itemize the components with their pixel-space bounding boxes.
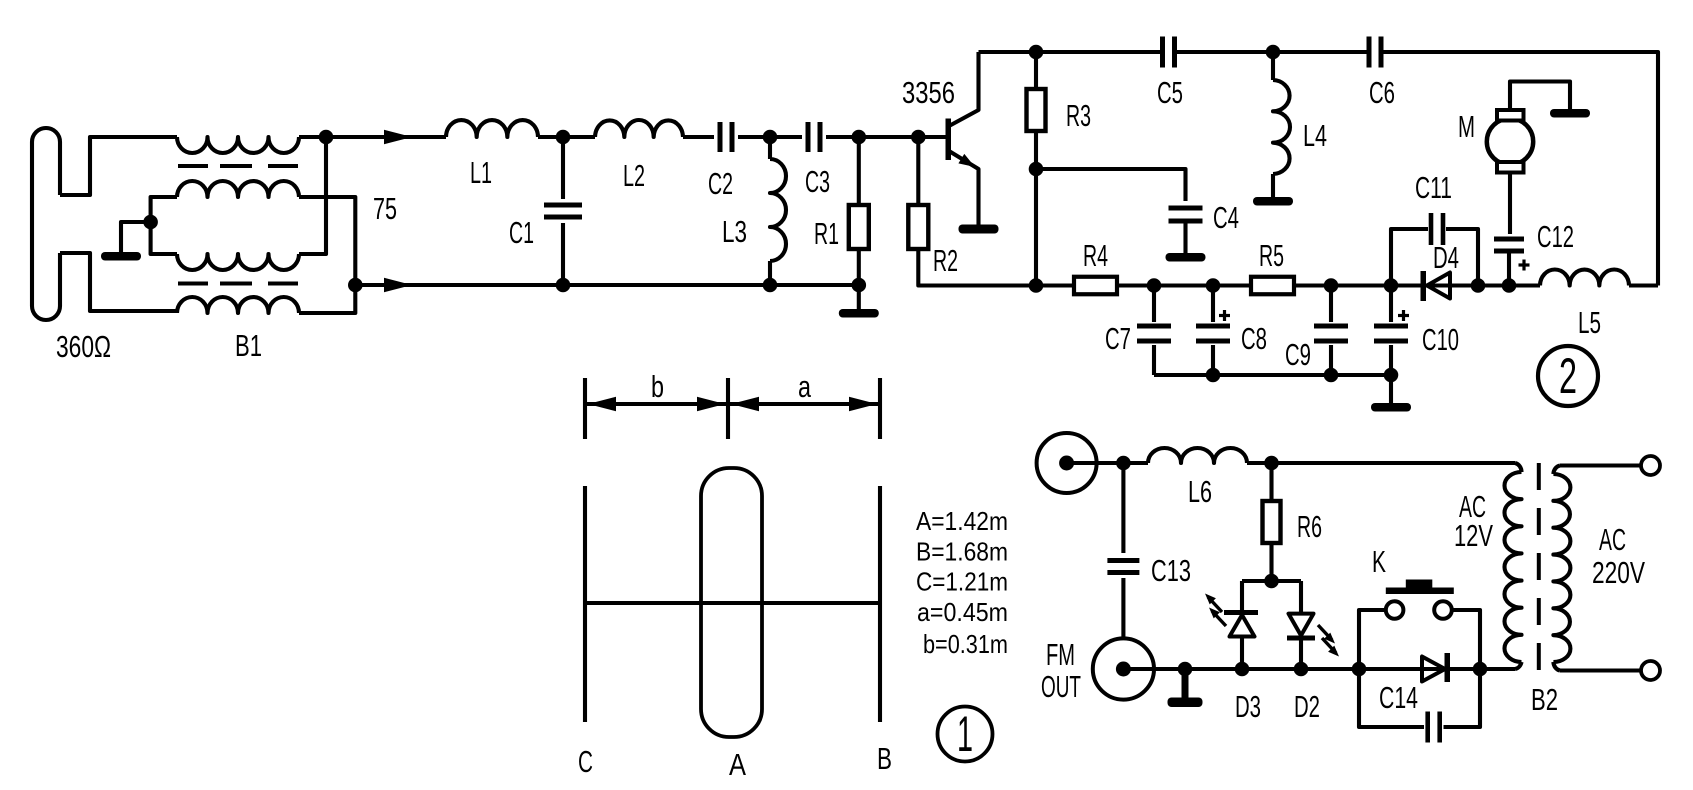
node C10 top [1384,278,1399,293]
capacitor C13 [1121,463,1125,553]
capacitor C11 [1429,213,1434,245]
wire motor to ground [1510,82,1570,112]
svg-text:OUT: OUT [1041,669,1081,704]
core dashes B1 lower [178,282,208,286]
dimension arrows a [731,397,759,411]
capacitor C9 [1329,286,1333,323]
antenna folded dipole A [701,468,762,737]
node L3 bottom [763,278,778,293]
wire R1 ground stub [857,285,861,311]
arrow signal in bottom [384,278,412,292]
terminal AC top [1641,456,1660,475]
node K right [1473,662,1488,677]
transistor Q1 base bar [946,119,952,161]
node base R2 [911,130,926,145]
node output ground [1178,662,1193,677]
wire top feed with arrow [326,135,446,139]
wire motor bottom to C12 [1508,173,1512,235]
inductor L1 [446,120,538,137]
svg-text:C4: C4 [1213,200,1239,235]
wire R3 node to C4 [1036,169,1186,201]
svg-text:AC: AC [1599,522,1626,557]
wire top rail left [979,50,1162,54]
svg-text:12V: 12V [1454,518,1493,553]
svg-text:C14: C14 [1379,680,1418,715]
capacitor C11 bracket [1391,229,1428,286]
ground filter [1371,403,1411,412]
svg-text:A: A [729,747,746,782]
capacitor C3 [806,122,811,152]
wire R3 node down to bus [1034,169,1038,286]
svg-text:D2: D2 [1294,689,1320,724]
resistor R3 [1034,52,1038,89]
ground B1 center tap [101,252,141,261]
resistor R2 [916,137,920,205]
svg-text:B: B [877,741,892,776]
antenna element C [583,486,587,722]
transformer B1 upper middle winding [177,181,299,197]
switch K contact left [1386,601,1404,619]
antenna boom [583,601,878,605]
svg-text:C6: C6 [1369,75,1395,110]
capacitor C1 [561,137,565,199]
figure number 1 circle [938,707,993,762]
wire base node to transistor [918,135,946,139]
wire supply bus [1185,667,1515,671]
wire D2 top [1299,581,1303,614]
inductor L5 [1540,269,1629,285]
capacitor C14 loop [1359,669,1424,727]
wire power bus [1036,283,1540,287]
capacitor C14 [1425,712,1430,743]
label C8 plus [1219,314,1230,317]
LED D3 emission arrows [1212,611,1226,626]
svg-text:C=1.21m: C=1.21m [916,567,1008,597]
transformer B1 top winding [177,137,299,153]
motor M body [1487,118,1533,164]
connector FM OUT [1093,638,1154,699]
svg-text:2: 2 [1559,348,1577,404]
node D2 bottom [1294,662,1309,677]
svg-text:L1: L1 [470,155,492,190]
diode D4 bar [1421,271,1427,301]
svg-text:C1: C1 [509,215,534,250]
wire bottom feed rail [355,283,859,287]
node C13 top [1116,456,1131,471]
wire C4 to ground [1183,221,1187,254]
node B1 center tap [143,215,158,230]
wire B1 middle left side [151,197,177,254]
node C1 bottom [556,278,571,293]
node C7 top [1147,278,1162,293]
dimension line a [728,402,880,406]
node C10 bottom [1384,368,1399,383]
capacitor C10 [1389,286,1393,323]
terminal AC bottom [1641,661,1660,680]
svg-text:3356: 3356 [902,75,955,110]
svg-text:B=1.68m: B=1.68m [916,537,1008,567]
node C9 bottom [1324,368,1339,383]
switch K bracket left [1359,610,1386,669]
node D3 bottom [1235,662,1250,677]
diode D1 bar [1445,653,1451,682]
wire R1 node to base node [859,135,919,139]
diode D4 triangle [1427,273,1450,299]
LED D2 triangle [1289,614,1314,636]
node C12 bottom [1502,278,1517,293]
svg-text:a=0.45m: a=0.45m [917,597,1008,627]
node R1 bottom [852,278,867,293]
transformer B2 primary winding [1515,463,1522,472]
svg-text:b: b [651,369,664,404]
svg-text:L3: L3 [722,214,747,249]
wire L2 to C2 [683,135,714,139]
transformer B2 core dashes [1537,463,1541,672]
svg-text:C3: C3 [805,164,830,199]
svg-text:R2: R2 [933,243,958,278]
node LED top [1264,574,1279,589]
node R6 top [1264,456,1279,471]
wire ground stub filter [1389,375,1393,404]
ground output [1168,698,1203,708]
svg-text:C5: C5 [1157,75,1183,110]
wire C2 to node [738,135,770,139]
switch K button [1406,580,1433,589]
wire LED bracket [1242,579,1301,583]
wire secondary bottom [1560,668,1641,672]
dimension line b [585,402,728,406]
wire L6 to B2 [1247,461,1515,465]
svg-text:C: C [578,744,593,779]
wire FM OUT to bus [1123,667,1185,671]
ground first stage [839,309,879,318]
LED D2 emission arrows [1318,625,1332,640]
wire connector to L6 [1067,461,1148,465]
svg-text:C2: C2 [708,166,733,201]
inductor L6 [1148,448,1247,463]
svg-text:M: M [1458,109,1475,144]
dimension tick B [878,378,882,439]
arrow signal in top [384,130,412,144]
wire node to C3 [770,135,802,139]
svg-text:C9: C9 [1285,337,1311,372]
svg-text:R4: R4 [1083,238,1108,273]
node B1 top output [319,130,334,145]
inductor L3 [768,137,772,159]
figure number 2 circle [1538,346,1598,406]
svg-text:L6: L6 [1188,474,1212,509]
svg-text:C11: C11 [1415,170,1452,205]
wire L1 to L2 [538,135,595,139]
transistor Q1 emitter arrow [958,154,975,167]
svg-text:1: 1 [957,706,973,762]
node L4 top [1266,45,1281,60]
inductor L2 [595,120,683,137]
switch K bracket right [1452,610,1480,669]
node R3 bottom [1029,162,1044,177]
capacitor C2 [718,122,723,152]
node C8 top [1206,278,1221,293]
wire C12 to bus [1507,251,1511,286]
svg-text:R1: R1 [814,216,839,251]
transformer B1 lower middle winding [177,254,299,270]
antenna element B [878,486,882,722]
node R1 top [852,130,867,145]
svg-text:L5: L5 [1578,305,1601,340]
svg-text:D3: D3 [1235,689,1261,724]
resistor R6 [1269,463,1273,501]
node C2 L3 C3 [763,130,778,145]
svg-text:R5: R5 [1259,238,1284,273]
label C12 plus [1519,263,1530,266]
capacitor C8 [1211,286,1215,323]
capacitor C5 [1160,37,1165,68]
folded dipole antenna 360 ohm [32,128,60,320]
svg-text:C10: C10 [1422,322,1459,357]
wire D3 bottom [1240,637,1244,670]
LED D3 triangle [1230,615,1255,637]
node C1 top [556,130,571,145]
svg-text:a: a [798,369,812,404]
ground L4 [1253,197,1293,206]
wire antenna lower feed [60,253,177,311]
transistor Q1 collector [949,52,979,126]
svg-text:360Ω: 360Ω [56,329,111,364]
svg-text:L4: L4 [1303,118,1327,153]
node C9 top [1324,278,1339,293]
wire center tap to ground [121,222,151,252]
wire secondary top [1560,463,1641,467]
svg-text:L2: L2 [623,158,645,193]
capacitor C4 [1169,206,1203,211]
LED D3 bar [1224,610,1258,615]
dimension tick center [726,378,730,439]
wire top rail right [1382,52,1658,286]
node K left [1352,662,1367,677]
svg-text:C7: C7 [1105,321,1131,356]
svg-text:C13: C13 [1151,553,1191,588]
diode D1 triangle [1422,657,1445,682]
wire D3 top [1240,581,1244,610]
core dashes B1 upper [178,164,208,168]
capacitor C6 [1367,37,1372,68]
svg-text:D4: D4 [1433,240,1459,275]
LED D2 bar [1287,636,1315,641]
svg-text:R3: R3 [1066,98,1091,133]
svg-text:75: 75 [373,191,397,226]
wire D2 bottom [1299,641,1303,670]
wire ground stub output [1182,669,1189,698]
svg-text:220V: 220V [1592,555,1645,590]
resistor R5 [1251,277,1294,295]
ground C4 [1166,253,1206,262]
wire B1 top to junction [299,135,326,139]
svg-text:K: K [1372,544,1386,579]
inductor L4 [1271,52,1275,80]
ground motor [1550,109,1590,118]
resistor R4 [1074,277,1117,295]
node B1 bottom output [348,278,363,293]
dimension arrows b [588,397,616,411]
wire top rail middle [1176,50,1368,54]
connector antenna output [1037,433,1097,493]
svg-text:B1: B1 [235,328,262,363]
node bus R2R3 [1029,278,1044,293]
transistor Q1 emitter [949,151,979,223]
resistor R1 [857,137,861,205]
svg-text:B2: B2 [1531,682,1558,717]
node C8 bottom [1206,368,1221,383]
ground emitter [976,223,980,226]
wire B1 upper middle winding to lower output [299,197,355,313]
dimension tick C [583,378,587,439]
wire B1 top junction down to lower middle winding [299,137,326,254]
svg-text:R6: R6 [1297,509,1322,544]
capacitor C12 [1494,237,1524,242]
label C10 plus [1398,314,1409,317]
motor M bottom brush [1497,162,1524,173]
motor M top brush [1497,110,1524,121]
capacitor C7 [1152,286,1156,323]
wire antenna upper feed [60,137,177,195]
svg-text:b=0.31m: b=0.31m [923,629,1008,659]
transformer B2 secondary winding [1553,466,1560,475]
svg-text:A=1.42m: A=1.42m [916,506,1008,536]
node C11 right bottom [1471,278,1486,293]
svg-text:FM: FM [1046,637,1075,672]
node R3 top [1029,45,1044,60]
transformer B1 bottom winding [177,297,299,313]
wire filter bottom [1154,373,1391,377]
switch K contact right [1434,601,1452,619]
svg-text:C8: C8 [1241,321,1267,356]
wire C3 to R1 node [826,135,859,139]
svg-text:C12: C12 [1537,219,1574,254]
